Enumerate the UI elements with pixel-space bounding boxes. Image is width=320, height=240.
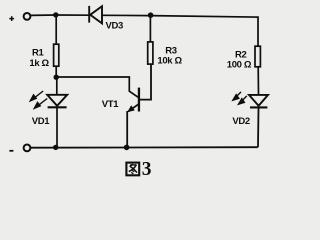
bottom-left junction dot — [53, 145, 58, 150]
resistor R3 — [148, 42, 153, 64]
wire: R1 to base node — [55, 67, 57, 77]
svg-text:VD3: VD3 — [106, 20, 123, 31]
wire: bottom rail — [31, 146, 258, 149]
wire: node A to VD3 cathode — [56, 14, 89, 16]
VD1 light arrows — [30, 91, 47, 108]
svg-text:VD1: VD1 — [32, 116, 50, 127]
svg-text:1k Ω: 1k Ω — [29, 58, 49, 69]
LED VD2 — [249, 95, 268, 108]
terminal + (plus sign) — [9, 16, 14, 21]
base node junction dot — [54, 75, 59, 80]
resistor R1 — [54, 44, 59, 66]
resistor R2 — [255, 46, 260, 67]
wire: VD1 to bottom rail — [56, 107, 58, 147]
svg-text:VT1: VT1 — [102, 99, 119, 110]
svg-text:100 Ω: 100 Ω — [227, 59, 252, 70]
svg-text:VD2: VD2 — [232, 116, 249, 127]
emitter junction dot — [124, 145, 130, 151]
wire: base wire from node to transistor — [56, 77, 138, 98]
caption glyph tu (figure) — [126, 163, 139, 176]
svg-text:R1: R1 — [32, 47, 45, 58]
LED VD1 — [47, 95, 67, 108]
terminal - (minus sign) — [9, 150, 13, 152]
wire: R2 to VD2 — [257, 67, 259, 95]
transistor VT1 — [127, 65, 151, 148]
svg-text:3: 3 — [142, 159, 152, 180]
VD2 light arrows — [233, 92, 247, 104]
svg-text:10k Ω: 10k Ω — [157, 55, 182, 66]
wire: base node down to VD1 — [56, 77, 58, 95]
terminal + circle — [24, 13, 31, 20]
wire: plus terminal to node A — [31, 14, 56, 16]
wire: node B to top-right corner down to R2 — [151, 16, 259, 46]
wire: VD3 anode to node B — [102, 14, 151, 16]
wire: node A down to R1 — [55, 15, 57, 44]
wire: VD2 to bottom-right corner — [257, 107, 260, 147]
node A junction dot — [53, 12, 58, 17]
node B junction dot — [148, 12, 154, 18]
terminal - circle — [24, 145, 31, 152]
diode VD3 — [89, 6, 102, 24]
wire: node B down to R3 — [149, 16, 151, 42]
